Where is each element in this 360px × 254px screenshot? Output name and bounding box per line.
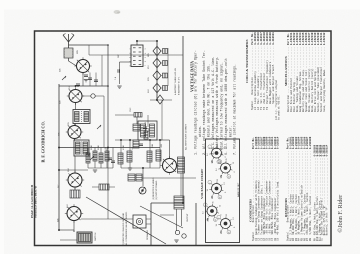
svg-text:©John F. Rider: ©John F. Rider: [337, 195, 344, 233]
